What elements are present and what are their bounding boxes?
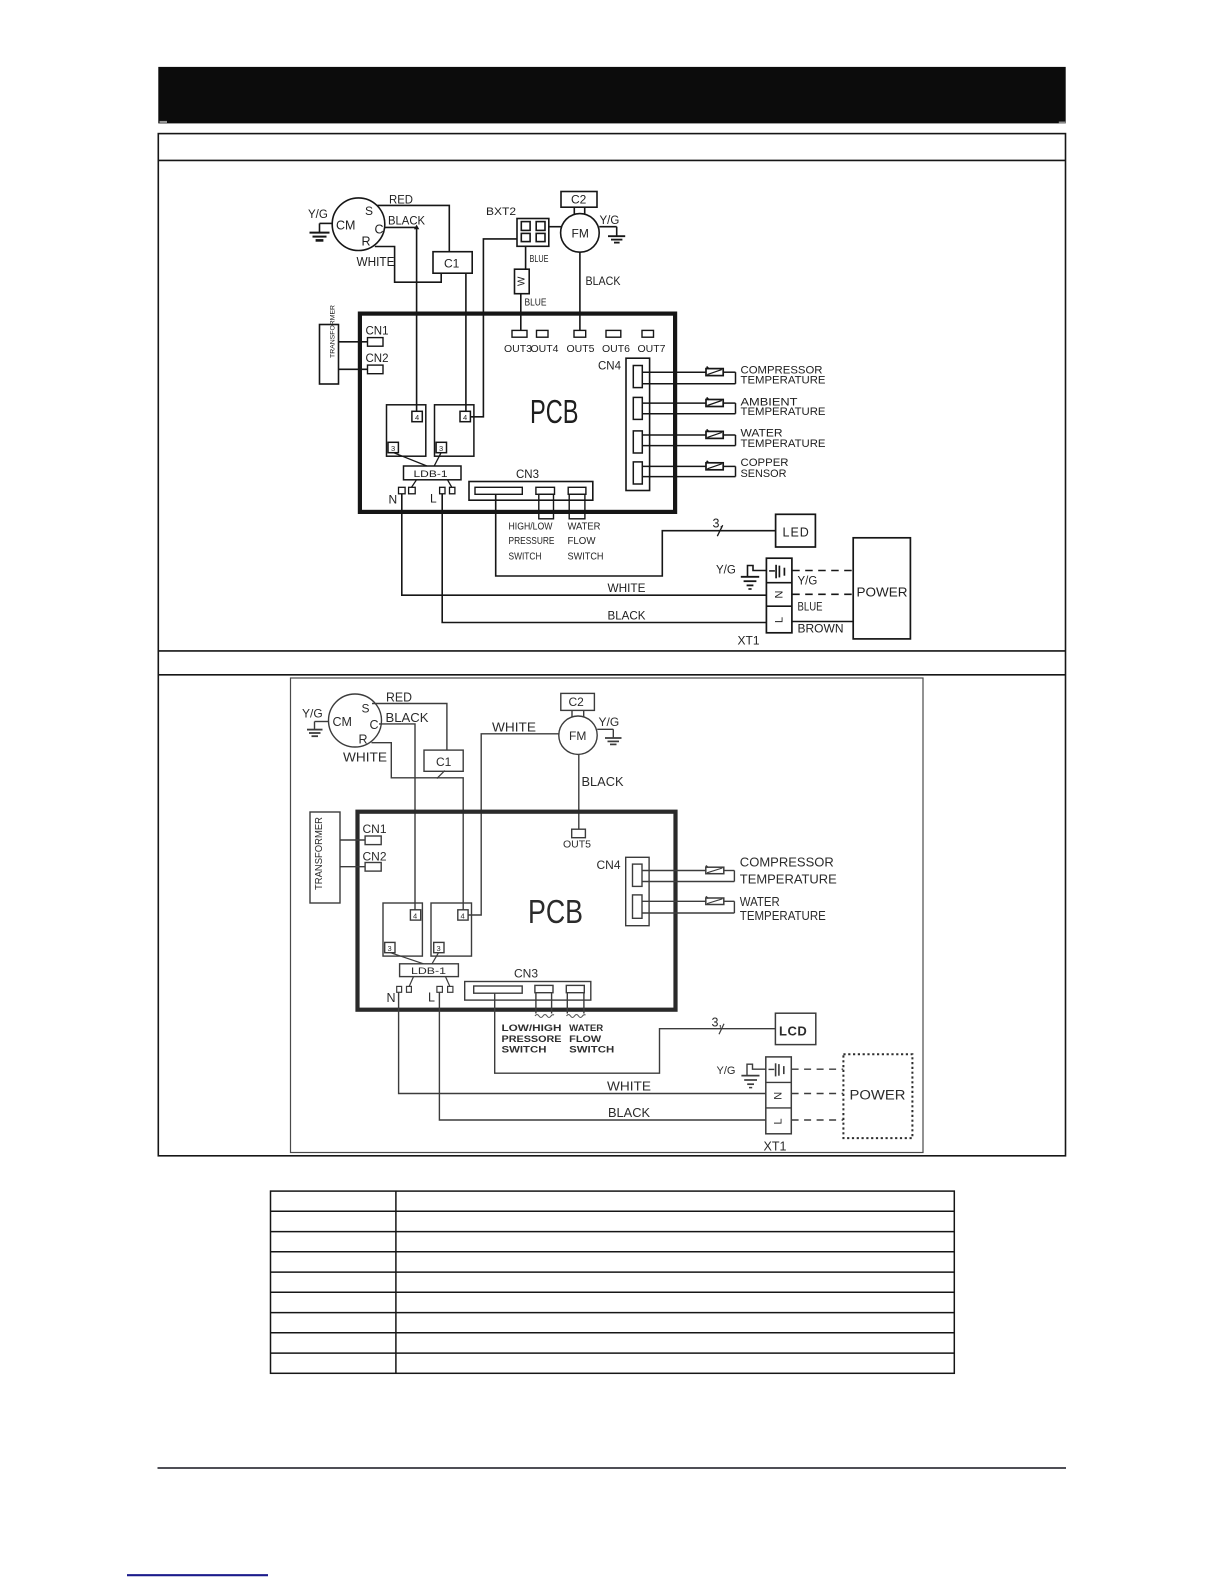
svg-text:PRESSORE: PRESSORE — [502, 1034, 562, 1044]
svg-text:Y/G: Y/G — [798, 576, 818, 588]
svg-text:3,: 3, — [712, 1016, 722, 1030]
svg-text:CN4: CN4 — [598, 361, 622, 373]
svg-text:S: S — [362, 702, 370, 716]
svg-text:SWITCH: SWITCH — [509, 552, 542, 563]
svg-text:BLACK: BLACK — [608, 609, 646, 623]
svg-text:OUT6: OUT6 — [602, 343, 630, 355]
svg-text:SENSOR: SENSOR — [741, 468, 787, 480]
svg-text:COMPRESSOR: COMPRESSOR — [740, 856, 834, 870]
svg-text:FM: FM — [569, 729, 586, 743]
svg-text:CN2: CN2 — [366, 353, 389, 365]
svg-text:TEMPERATURE: TEMPERATURE — [741, 406, 826, 418]
svg-text:Y/G: Y/G — [302, 707, 323, 721]
svg-text:POWER: POWER — [857, 586, 908, 600]
svg-text:CN1: CN1 — [363, 822, 387, 836]
svg-text:PCB: PCB — [528, 893, 583, 930]
svg-text:CN3: CN3 — [516, 469, 539, 481]
svg-text:4: 4 — [413, 912, 417, 921]
svg-text:OUT3: OUT3 — [504, 343, 532, 355]
svg-text:POWER: POWER — [850, 1088, 906, 1103]
svg-text:BLACK: BLACK — [586, 276, 621, 288]
svg-text:WATER: WATER — [740, 895, 780, 909]
svg-text:SWITCH: SWITCH — [502, 1045, 547, 1055]
svg-text:BLUE: BLUE — [530, 254, 549, 265]
svg-text:CM: CM — [333, 715, 352, 729]
svg-text:LED: LED — [783, 526, 810, 540]
svg-text:FM: FM — [572, 227, 589, 241]
svg-text:3: 3 — [439, 444, 443, 453]
svg-text:W: W — [517, 276, 528, 286]
svg-text:4: 4 — [463, 413, 467, 422]
svg-text:RED: RED — [389, 193, 413, 207]
svg-text:WHITE: WHITE — [357, 255, 395, 269]
svg-text:Y/G: Y/G — [717, 1065, 736, 1077]
svg-text:BXT2: BXT2 — [486, 206, 516, 218]
svg-text:C1: C1 — [436, 755, 452, 769]
svg-text:PRESSURE: PRESSURE — [509, 536, 555, 547]
svg-text:C: C — [375, 223, 384, 237]
svg-text:BLACK: BLACK — [386, 711, 430, 725]
svg-text:Y/G: Y/G — [716, 565, 736, 577]
svg-text:N: N — [387, 991, 396, 1005]
svg-text:WHITE: WHITE — [343, 751, 387, 765]
svg-text:PCB: PCB — [530, 393, 579, 430]
svg-text:COPPER: COPPER — [741, 457, 789, 469]
svg-text:OUT5: OUT5 — [567, 343, 595, 355]
svg-text:L: L — [428, 991, 435, 1005]
svg-text:TEMPERATURE: TEMPERATURE — [740, 909, 826, 923]
svg-text:CM: CM — [336, 219, 355, 233]
svg-text:C2: C2 — [569, 695, 585, 709]
svg-text:BLACK: BLACK — [388, 214, 425, 228]
svg-text:TEMPERATURE: TEMPERATURE — [740, 872, 837, 886]
svg-text:Y/G: Y/G — [600, 215, 620, 227]
svg-text:Y/G: Y/G — [308, 209, 328, 221]
svg-text:N: N — [389, 493, 398, 507]
svg-text:CN2: CN2 — [363, 850, 387, 864]
svg-text:FLOW: FLOW — [568, 536, 596, 547]
svg-text:Y/G: Y/G — [599, 715, 620, 729]
svg-text:3: 3 — [391, 444, 395, 453]
svg-text:WHITE: WHITE — [492, 721, 536, 735]
svg-text:LOW/HIGH: LOW/HIGH — [502, 1023, 562, 1033]
svg-text:C: C — [370, 718, 379, 732]
svg-text:LCD: LCD — [779, 1024, 807, 1039]
svg-text:C2: C2 — [571, 193, 587, 207]
svg-text:R: R — [362, 235, 371, 249]
svg-text:LDB-1: LDB-1 — [414, 469, 448, 480]
svg-text:WHITE: WHITE — [607, 1080, 651, 1094]
svg-text:4: 4 — [461, 912, 465, 921]
svg-text:XT1: XT1 — [738, 634, 760, 648]
svg-text:N: N — [773, 591, 785, 599]
svg-text:TRANSFORMER: TRANSFORMER — [330, 305, 337, 358]
svg-text:OUT5: OUT5 — [563, 839, 591, 851]
svg-text:3: 3 — [437, 944, 441, 953]
svg-text:CN1: CN1 — [366, 326, 389, 338]
svg-text:HIGH/LOW: HIGH/LOW — [509, 522, 553, 533]
svg-text:XT1: XT1 — [764, 1140, 787, 1154]
svg-text:4: 4 — [415, 413, 419, 422]
svg-text:R: R — [359, 733, 368, 747]
svg-text:C1: C1 — [444, 257, 460, 271]
svg-text:CN3: CN3 — [514, 967, 538, 981]
svg-text:LDB-1: LDB-1 — [411, 966, 446, 977]
svg-text:RED: RED — [386, 691, 412, 705]
svg-text:CN4: CN4 — [597, 858, 621, 872]
svg-text:SWITCH: SWITCH — [569, 1045, 614, 1055]
svg-text:OUT7: OUT7 — [638, 343, 666, 355]
svg-text:TRANSFORMER: TRANSFORMER — [314, 817, 325, 890]
svg-text:SWITCH: SWITCH — [568, 552, 604, 563]
svg-text:WHITE: WHITE — [608, 581, 646, 595]
svg-text:L: L — [773, 617, 785, 623]
svg-text:BROWN: BROWN — [798, 624, 844, 636]
svg-text:BLUE: BLUE — [798, 602, 823, 614]
svg-text:OUT4: OUT4 — [531, 343, 559, 355]
svg-text:BLACK: BLACK — [608, 1106, 651, 1120]
svg-text:N: N — [773, 1092, 785, 1100]
svg-text:BLUE: BLUE — [525, 298, 547, 309]
svg-text:WATER: WATER — [568, 522, 601, 533]
svg-text:TEMPERATURE: TEMPERATURE — [741, 438, 826, 450]
svg-text:WATER: WATER — [569, 1023, 604, 1033]
svg-text:L: L — [430, 492, 437, 506]
svg-text:S: S — [365, 204, 373, 218]
svg-text:BLACK: BLACK — [582, 775, 625, 789]
svg-text:3: 3 — [388, 944, 392, 953]
svg-text:3,: 3, — [713, 517, 723, 531]
svg-text:FLOW: FLOW — [569, 1034, 602, 1044]
svg-text:TEMPERATURE: TEMPERATURE — [741, 374, 826, 386]
svg-text:L: L — [773, 1118, 785, 1124]
